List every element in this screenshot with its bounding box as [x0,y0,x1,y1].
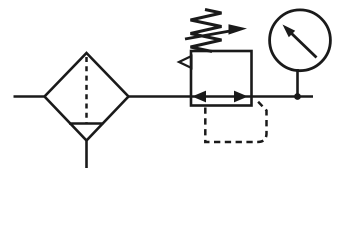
filter F1 body (diamond) [45,53,129,141]
wire: outlet line [252,95,314,98]
filter baffle line [69,122,104,125]
regulator flow path line [191,95,252,98]
gauge needle shaft [289,31,317,58]
regulator relief vent triangle [179,56,192,68]
junction node dot [294,93,301,100]
gauge stem wire [296,69,299,97]
wire: inlet line [14,95,45,98]
regulator adjustment arrow shaft [185,31,230,39]
filter drain line [85,141,88,169]
pilot sensing dashed line [205,99,266,142]
filter element (dashed centre line) [85,57,88,123]
wire: filter to regulator [129,95,192,98]
pressure gauge G1 dial [270,10,331,71]
gauge needle arrowhead [283,25,296,38]
regulator flow arrowhead right [234,91,248,103]
regulator flow arrowhead left [192,91,206,103]
regulator spring [191,10,222,52]
regulator R1 body (square) [191,51,252,106]
regulator adjustment arrowhead [229,24,248,34]
